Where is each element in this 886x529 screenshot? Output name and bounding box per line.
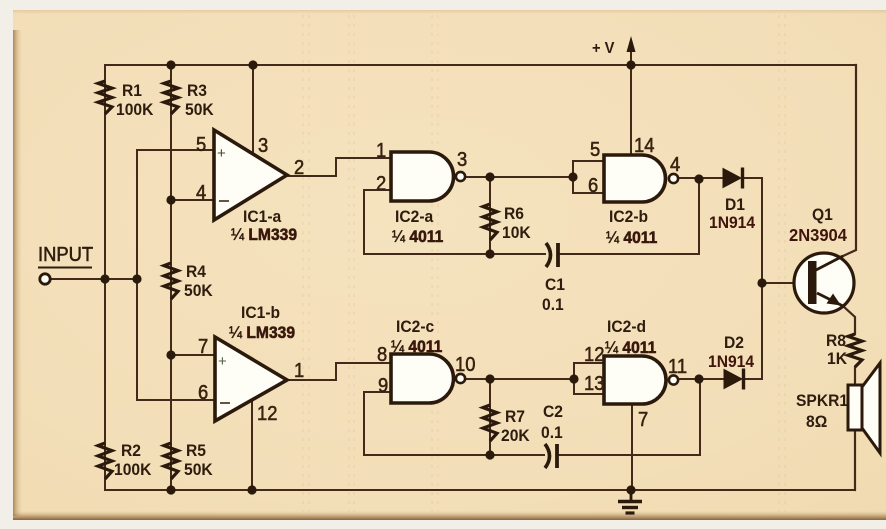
capacitor C1 0.1 <box>546 243 551 267</box>
svg-text:SPKR1: SPKR1 <box>796 391 848 410</box>
wire: IC2-c output pin10 to IC2-d inputs <box>466 378 574 380</box>
node junction (699,379) <box>694 374 703 383</box>
wire: INPUT horizontal <box>50 278 137 280</box>
wire: Q1 base lead <box>762 282 808 284</box>
svg-text:C2: C2 <box>543 402 563 421</box>
wire: IC1-a output pin2 to IC2-a pin1 <box>287 158 391 176</box>
svg-text:6: 6 <box>588 175 598 197</box>
svg-text:7: 7 <box>198 336 208 358</box>
svg-text:50K: 50K <box>184 460 213 479</box>
svg-text:0.1: 0.1 <box>542 295 564 314</box>
node junction (490,177) <box>485 172 494 181</box>
op-amp U1 IC1-a <box>214 130 287 220</box>
node junction (631,490) <box>626 485 635 494</box>
wire: R7 branch <box>489 379 491 455</box>
wire: D1 cathode to Q1 base node <box>743 178 762 379</box>
wire: IC1-a pin4 lead <box>171 199 214 201</box>
wire: D2 cathode to base node <box>744 378 762 380</box>
svg-text:¼ 4011: ¼ 4011 <box>391 337 442 356</box>
svg-text:14: 14 <box>634 135 655 157</box>
wire: IC2-d input bracket pins 12,13 <box>574 363 604 394</box>
svg-text:12: 12 <box>257 403 277 425</box>
svg-text:2: 2 <box>294 157 304 179</box>
wire: bottom ground rail <box>105 489 855 491</box>
resistor R4 <box>164 263 178 299</box>
diode D2 1N914 <box>724 370 742 389</box>
svg-text:3: 3 <box>457 149 467 171</box>
svg-text:IC1-a: IC1-a <box>243 207 282 226</box>
svg-text:R3: R3 <box>187 81 207 100</box>
speaker SPKR1 <box>848 385 862 430</box>
svg-text:1N914: 1N914 <box>709 213 755 232</box>
svg-text:100K: 100K <box>114 460 152 479</box>
wire: +V top rail <box>105 64 856 66</box>
node junction (105,279) <box>100 274 109 283</box>
svg-text:IC2-a: IC2-a <box>395 207 434 226</box>
node junction (490,254) <box>485 249 494 258</box>
node junction (574,379) <box>569 374 578 383</box>
svg-text:IC2-b: IC2-b <box>609 207 648 226</box>
resistor R1 <box>98 81 112 114</box>
svg-text:R6: R6 <box>504 204 524 223</box>
wire: left vertical R1/R2 branch <box>104 65 106 490</box>
op-amp U2 IC1-b <box>215 337 287 421</box>
svg-text:¼ 4011: ¼ 4011 <box>606 228 657 247</box>
wire: IC2-c pin9 feedback lead <box>364 392 391 455</box>
svg-text:C1: C1 <box>545 275 565 294</box>
node junction (252,490) <box>247 485 256 494</box>
svg-text:2: 2 <box>376 173 386 195</box>
node junction (762,283) <box>757 278 766 287</box>
svg-text:100K: 100K <box>116 100 154 119</box>
wire: IC1-b pin6 lead <box>137 399 214 401</box>
svg-text:13: 13 <box>584 373 604 395</box>
svg-text:INPUT: INPUT <box>38 244 93 266</box>
svg-text:1K: 1K <box>827 349 847 368</box>
wire: +V arrow line to IC2-b pin14 <box>630 44 632 155</box>
node junction (171,355) <box>166 350 175 359</box>
svg-text:5: 5 <box>590 139 600 161</box>
svg-text:10: 10 <box>455 354 475 376</box>
svg-text:¼ 4011: ¼ 4011 <box>392 227 443 246</box>
svg-text:R2: R2 <box>121 441 141 460</box>
wire: IC1-b pin12 ground lead <box>251 401 253 490</box>
svg-text:50K: 50K <box>185 100 214 119</box>
node junction (631,65) <box>626 60 635 69</box>
resistor R8 <box>848 334 862 367</box>
NAND gate IC2-b <box>604 155 665 202</box>
node junction (490,455) <box>485 450 494 459</box>
resistor R3 <box>164 81 178 114</box>
NAND gate IC2-a <box>391 152 454 201</box>
svg-text:IC2-d: IC2-d <box>607 317 646 336</box>
wire: IC1-a pin5 lead <box>137 149 214 151</box>
svg-text:¼ LM339: ¼ LM339 <box>231 225 297 244</box>
node junction (573,177) <box>568 172 577 181</box>
svg-text:R4: R4 <box>186 262 206 281</box>
svg-text:D1: D1 <box>725 195 745 214</box>
svg-text:8Ω: 8Ω <box>806 412 827 431</box>
transistor Q1 2N3904 <box>794 253 854 313</box>
svg-text:+: + <box>218 353 227 370</box>
wire: C2 feedback line <box>364 454 544 456</box>
node junction (137,279) <box>132 274 141 283</box>
svg-text:+: + <box>217 145 226 162</box>
wire: IC2-d pin7 ground lead <box>631 404 633 490</box>
svg-text:¼ 4011: ¼ 4011 <box>605 338 656 357</box>
svg-text:4: 4 <box>196 182 207 204</box>
NAND gate IC2-d <box>604 356 666 404</box>
svg-text:2N3904: 2N3904 <box>789 224 847 245</box>
svg-text:5: 5 <box>196 134 206 156</box>
svg-text:7: 7 <box>638 409 648 431</box>
node junction (699,179) <box>694 174 703 183</box>
node junction (171,200) <box>166 195 175 204</box>
svg-text:11: 11 <box>668 356 687 378</box>
svg-text:3: 3 <box>258 135 268 157</box>
capacitor C2 0.1 <box>545 444 550 468</box>
svg-text:12: 12 <box>584 344 604 366</box>
svg-text:0.1: 0.1 <box>541 423 563 442</box>
svg-text:R1: R1 <box>122 81 142 100</box>
svg-text:8: 8 <box>377 344 387 366</box>
resistor R5 <box>164 443 178 479</box>
wire: Q1 emitter to R8 to SPKR1 <box>843 306 855 334</box>
wire: IC2-a output pin3 to IC2-b inputs <box>465 176 573 178</box>
svg-text:+ V: + V <box>592 39 615 57</box>
wire: R3/R4/R5 vertical branch <box>170 65 172 490</box>
svg-text:4: 4 <box>670 154 681 176</box>
svg-text:¼ LM339: ¼ LM339 <box>229 323 295 342</box>
svg-text:20K: 20K <box>501 426 530 445</box>
wire: IC2-b output pin4 to D1 <box>678 177 723 179</box>
wire: IC2-d output pin11 to D2 <box>677 378 724 380</box>
wire: right vertical +V to Q1 collector <box>843 65 856 256</box>
svg-text:R5: R5 <box>186 441 206 460</box>
node junction (171,65) <box>166 60 175 69</box>
svg-text:R7: R7 <box>505 407 525 426</box>
resistor R6 <box>483 204 497 240</box>
svg-text:IC2-c: IC2-c <box>396 317 434 336</box>
NAND gate IC2-c <box>391 354 453 403</box>
node +V supply arrow <box>627 36 636 52</box>
resistor R2 <box>98 443 112 479</box>
node junction (490,379) <box>485 374 494 383</box>
wire: R6 branch <box>489 177 491 254</box>
svg-text:R8: R8 <box>826 331 846 350</box>
svg-text:IC1-b: IC1-b <box>241 303 280 322</box>
svg-text:50K: 50K <box>184 281 213 300</box>
svg-text:9: 9 <box>378 375 388 397</box>
svg-text:6: 6 <box>198 382 208 404</box>
svg-text:1N914: 1N914 <box>708 352 754 371</box>
resistor R7 <box>483 405 497 441</box>
svg-text:1: 1 <box>294 360 304 382</box>
svg-text:Q1: Q1 <box>812 205 833 224</box>
wire: IC1-b pin7 lead <box>171 354 214 356</box>
wire: IC1-b output pin1 to IC2-c pin8 <box>287 363 391 380</box>
svg-text:D2: D2 <box>724 333 744 352</box>
svg-text:10K: 10K <box>502 223 531 242</box>
wire: C1 feedback line <box>364 253 545 255</box>
wire: IC1-a V+ pin3 lead <box>252 65 254 154</box>
node junction (253,65) <box>248 60 257 69</box>
wire: IC2-b input bracket pins 5,6 <box>573 161 604 193</box>
ground <box>630 490 633 500</box>
diode D1 1N914 <box>723 169 741 188</box>
node junction (171,490) <box>166 485 175 494</box>
svg-text:1: 1 <box>376 140 386 162</box>
wire: IC2-a pin2 feedback lead <box>364 190 391 254</box>
wire: input vertical to pins 5 and 6 <box>136 150 138 400</box>
node INPUT terminal <box>40 274 50 284</box>
